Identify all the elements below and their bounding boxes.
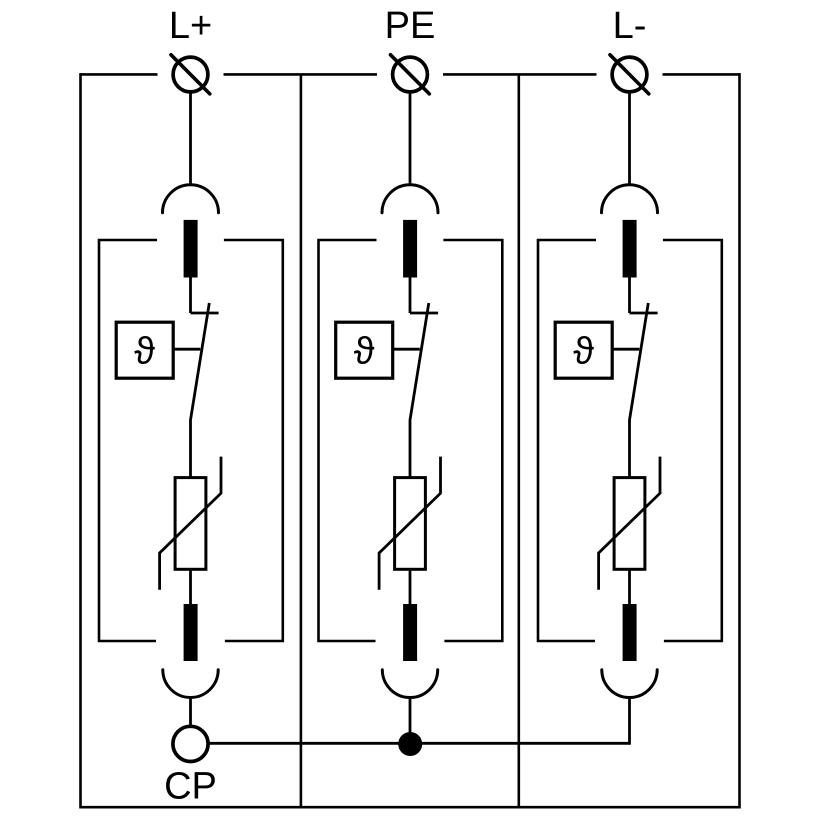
electrode bar (upper) — [403, 220, 417, 278]
varistor stroke — [160, 457, 221, 590]
terminal L- — [610, 55, 649, 94]
module box — [99, 240, 283, 641]
bus wire CP to L- path — [208, 742, 630, 745]
thermal sensor box — [116, 322, 173, 378]
wire terminal to plug contact — [189, 92, 192, 185]
svg-text:ϑ: ϑ — [354, 331, 375, 373]
wire contact to junction — [409, 697, 412, 744]
electrode bar (lower) — [403, 604, 417, 661]
sensor link line — [173, 348, 200, 351]
wire terminal to plug contact — [409, 92, 412, 185]
sensor link line — [612, 348, 639, 351]
varistor body — [395, 478, 426, 570]
plug-in contact (upper) — [163, 185, 219, 213]
wire varistor to bar — [628, 569, 631, 604]
plug-in contact (lower) — [602, 670, 657, 698]
thermal disconnector contact — [191, 312, 219, 315]
wire contact to CP terminal — [189, 697, 192, 727]
electrode bar (lower) — [623, 604, 637, 661]
module box — [319, 240, 503, 641]
wire contact down to bus — [628, 697, 631, 745]
wire terminal to plug contact — [628, 92, 631, 185]
electrode bar (upper) — [184, 220, 198, 278]
wire bar to disconnector — [628, 278, 631, 314]
module box — [538, 240, 722, 641]
svg-text:PE: PE — [385, 5, 436, 47]
terminal PE — [391, 55, 430, 94]
thermal sensor box — [336, 322, 393, 378]
electrode bar (upper) — [623, 220, 637, 278]
terminal CP — [173, 726, 208, 761]
plug-in contact (lower) — [163, 670, 218, 698]
svg-text:L+: L+ — [169, 5, 212, 47]
terminal L+ — [171, 55, 210, 94]
wire bar to disconnector — [189, 278, 192, 314]
wire varistor to bar — [189, 569, 192, 604]
varistor stroke — [379, 457, 440, 590]
svg-text:L-: L- — [613, 5, 647, 47]
wire bar to disconnector — [409, 278, 412, 314]
thermal disconnector contact — [410, 312, 438, 315]
thermal sensor box — [555, 322, 612, 378]
wire varistor to bar — [409, 569, 412, 604]
svg-text:ϑ: ϑ — [134, 331, 155, 373]
divider wall between path 1 and 2 — [300, 74, 303, 807]
junction node — [398, 732, 422, 756]
enclosure outline (device case) — [81, 73, 740, 807]
disconnector blade — [191, 303, 210, 478]
varistor stroke — [599, 457, 660, 590]
disconnector blade — [630, 303, 649, 478]
svg-text:CP: CP — [164, 765, 217, 807]
divider wall between path 2 and 3 — [517, 74, 520, 807]
thermal disconnector contact — [630, 312, 658, 315]
plug-in contact (upper) — [382, 185, 438, 213]
disconnector blade — [410, 303, 429, 478]
varistor body — [614, 478, 645, 570]
varistor body — [175, 478, 206, 570]
svg-text:ϑ: ϑ — [573, 331, 594, 373]
sensor link line — [393, 348, 420, 351]
plug-in contact (upper) — [602, 185, 658, 213]
electrode bar (lower) — [184, 604, 198, 661]
plug-in contact (lower) — [382, 670, 437, 698]
